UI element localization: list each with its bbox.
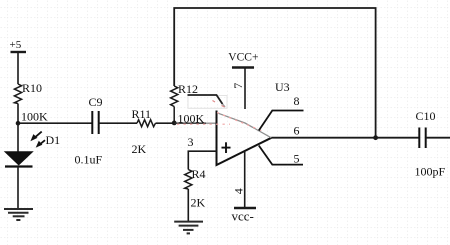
red net highlight [177,113,262,131]
wire [17,104,19,153]
svg-text:8: 8 [294,94,300,108]
svg-text:+5: +5 [10,39,22,51]
wire [426,137,450,139]
pin 6 output wire [271,124,419,138]
svg-text:4: 4 [232,188,246,194]
svg-text:100K: 100K [21,109,48,123]
svg-text:C9: C9 [89,95,103,109]
node junction [16,121,21,126]
resistor R11 [132,107,156,156]
power +5 [10,39,27,52]
resistor R12 [171,82,205,125]
pin 5 [259,146,303,166]
wire pin 2 stub [188,95,223,104]
selection box [188,96,227,109]
capacitor C9 [75,95,103,167]
svg-text:C10: C10 [416,109,436,123]
power VCC+ [228,51,258,67]
wire [156,122,175,124]
power vcc- [232,208,257,224]
svg-text:D1: D1 [46,133,61,147]
ground [4,209,33,220]
wire [187,189,189,222]
node junction [172,121,177,126]
node junction [373,135,378,140]
resistor R4 [185,167,206,210]
svg-text:100pF: 100pF [415,164,446,178]
svg-text:5: 5 [294,152,300,166]
wire [99,122,137,124]
svg-text:R4: R4 [192,167,206,181]
svg-text:R10: R10 [22,81,42,95]
svg-text:vcc-: vcc- [232,209,254,224]
svg-text:7: 7 [231,83,245,89]
svg-text:R11: R11 [132,107,152,121]
resistor R10 [14,81,48,123]
wire feedback loop [174,8,375,138]
svg-text:6: 6 [294,124,300,138]
svg-text:0.1uF: 0.1uF [75,153,103,167]
wire [17,52,19,84]
svg-text:U3: U3 [275,80,290,94]
svg-text:VCC+: VCC+ [228,51,258,63]
LED D1 [5,132,60,167]
pin 8 [259,94,304,131]
svg-text:R12: R12 [178,82,198,96]
svg-text:2K: 2K [132,142,147,156]
wire inverting input [174,122,206,124]
capacitor C10 [415,109,446,178]
pin 3 wire [188,135,217,169]
svg-text:3: 3 [188,135,194,149]
svg-text:2K: 2K [191,195,206,209]
wire [18,122,92,124]
ground [174,222,203,234]
op-amp U3 [213,80,290,165]
pin 7 [231,68,245,110]
pin 4 [232,151,246,208]
wire [17,167,19,209]
